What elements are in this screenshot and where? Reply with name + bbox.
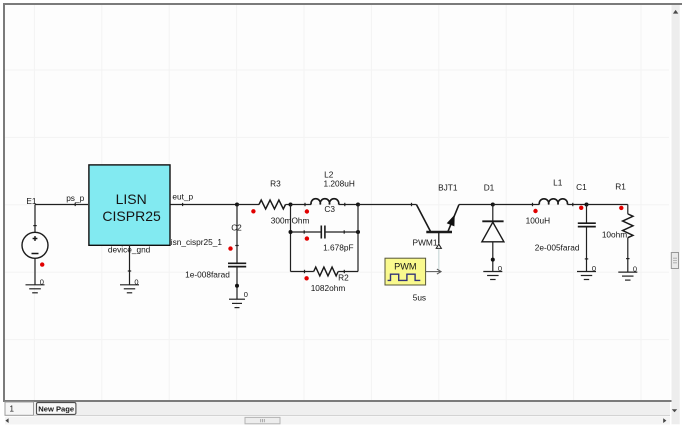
ground (R1) xyxy=(618,272,637,280)
svg-text:10ohm: 10ohm xyxy=(602,229,627,239)
pin tick before BJT1 xyxy=(411,203,413,206)
junction node A (C2 tap) xyxy=(235,203,239,207)
svg-text:1e-008farad: 1e-008farad xyxy=(185,270,230,280)
pin tick eut_p xyxy=(182,203,184,206)
wire: right branch vertical of RLC tank xyxy=(357,205,359,272)
wire: PWM output arrow xyxy=(426,269,442,274)
junction node B xyxy=(289,203,293,207)
node: red probe dot after eut_p xyxy=(251,209,255,213)
node: red probe dot at R2 branch xyxy=(304,276,308,280)
svg-text:R3: R3 xyxy=(270,179,281,189)
junction node C xyxy=(356,203,360,207)
wire: E1 top to rail xyxy=(34,205,36,233)
junction on C2 ground stem xyxy=(235,284,239,288)
wire: node B to L2 xyxy=(291,204,312,206)
wire: gate control link (light) xyxy=(438,249,440,272)
pin tick C3 right xyxy=(343,230,345,233)
svg-text:0: 0 xyxy=(40,277,44,286)
wire: LISN eut_p to node A xyxy=(170,204,237,206)
junction node D (D1 tap) xyxy=(491,203,495,207)
resistor R3 xyxy=(259,200,286,209)
svg-text:PWM: PWM xyxy=(394,262,416,272)
pin tick before L1 xyxy=(532,203,534,206)
resistor R2 xyxy=(314,267,338,276)
voltage source E1 xyxy=(22,232,48,258)
node: red probe dot at R1 xyxy=(619,206,623,210)
node: red probe dot at E1 xyxy=(40,262,44,266)
svg-text:C2: C2 xyxy=(231,223,242,233)
resistor R1 xyxy=(623,214,633,238)
wire: E1 bottom to ground xyxy=(34,258,36,285)
svg-text:0: 0 xyxy=(134,277,138,286)
svg-text:eut_p: eut_p xyxy=(172,191,193,201)
svg-text:lisn_cispr25_1: lisn_cispr25_1 xyxy=(169,237,222,247)
node: red probe dot at C1 xyxy=(579,206,583,210)
svg-text:2e-005farad: 2e-005farad xyxy=(535,243,580,253)
inductor L2 xyxy=(311,199,339,205)
wire: LISN device_gnd to ground xyxy=(129,245,131,285)
svg-text:1.678pF: 1.678pF xyxy=(323,243,353,253)
svg-text:0: 0 xyxy=(633,264,637,273)
pin tick C2 stem xyxy=(235,245,238,247)
svg-text:C1: C1 xyxy=(576,182,587,192)
capacitor C2 xyxy=(236,205,238,264)
pin tick before L2 xyxy=(304,203,306,206)
pin tick C3 left xyxy=(303,230,305,233)
vertical scrollbar xyxy=(671,5,679,424)
wire: R1 bottom lead xyxy=(627,238,629,272)
svg-text:0: 0 xyxy=(244,290,248,299)
pin tick after L2 xyxy=(344,203,346,206)
capacitor C3 xyxy=(321,226,325,239)
svg-text:1082ohm: 1082ohm xyxy=(311,283,346,293)
junction on D1 ground stem xyxy=(491,258,495,262)
junction node E (C1 tap) xyxy=(585,203,589,207)
wire: C3 branch right xyxy=(325,231,358,233)
horizontal scrollbar xyxy=(5,417,670,425)
svg-text:D1: D1 xyxy=(484,182,495,192)
svg-text:E1: E1 xyxy=(26,196,37,206)
node: red probe dot below node B xyxy=(305,209,309,213)
svg-text:5us: 5us xyxy=(413,292,426,302)
node: red probe dot at C2 xyxy=(228,246,232,250)
page tab bar xyxy=(5,402,670,416)
svg-text:BJT1: BJT1 xyxy=(438,182,458,192)
diode D1 xyxy=(482,205,504,272)
wire: node C to BJT1 collector xyxy=(358,204,416,206)
wire: R2 branch left xyxy=(291,271,314,273)
wire: L2 to node C xyxy=(339,204,358,206)
svg-text:0: 0 xyxy=(592,264,596,273)
ground (D1) xyxy=(483,272,502,280)
pin tick device_gnd xyxy=(128,270,131,272)
wire: node A to R3 xyxy=(237,204,259,206)
ground (LISN device_gnd) xyxy=(120,285,139,293)
wire: C2 to ground xyxy=(236,267,238,300)
wire: BJT1 emitter to node D xyxy=(459,204,493,206)
ground (C1) xyxy=(577,272,596,280)
wire: main rail E1 to LISN ps_p xyxy=(35,204,88,206)
transistor BJT1 xyxy=(416,205,459,249)
junction C3 branch right xyxy=(356,230,360,234)
svg-text:New Page: New Page xyxy=(38,404,74,413)
wire: R1 top lead xyxy=(627,205,629,214)
svg-text:PWM1: PWM1 xyxy=(413,238,438,248)
pin tick C1 stem xyxy=(585,258,588,260)
wire: node D to L1 xyxy=(493,204,540,206)
svg-text:R2: R2 xyxy=(338,273,349,283)
PWM source block PWM1 xyxy=(385,258,426,285)
svg-text:R1: R1 xyxy=(615,182,626,192)
capacitor C1 xyxy=(586,205,588,224)
node: red probe dot after L1 left xyxy=(533,209,537,213)
svg-text:0: 0 xyxy=(498,264,502,273)
inductor L1 xyxy=(539,199,567,205)
junction C3 branch left xyxy=(289,230,293,234)
wire: R3 to node B xyxy=(286,204,291,206)
pin tick E1 top xyxy=(33,225,36,227)
svg-text:CISPR25: CISPR25 xyxy=(102,208,161,224)
svg-text:LISN: LISN xyxy=(116,191,147,207)
ground (E1) xyxy=(26,285,45,293)
svg-text:1.208uH: 1.208uH xyxy=(324,179,355,189)
pin tick ps_p xyxy=(74,203,76,206)
LISN block U1 lisn_cispr25_1 xyxy=(89,165,170,245)
svg-text:L1: L1 xyxy=(553,178,563,188)
node: red probe dot at C3 branch xyxy=(305,236,309,240)
wire: left branch vertical of RLC tank xyxy=(290,205,292,272)
svg-text:100uH: 100uH xyxy=(526,216,550,226)
svg-text:ps_p: ps_p xyxy=(66,193,84,203)
ground (C2) xyxy=(229,299,245,307)
pin tick after L1 xyxy=(572,203,574,206)
wire: node E to R1 xyxy=(587,204,628,206)
svg-text:1: 1 xyxy=(10,405,15,414)
wire: C1 to ground xyxy=(586,227,588,272)
svg-text:C3: C3 xyxy=(324,204,335,214)
wire: R2 branch right xyxy=(338,271,358,273)
wire: L1 to node E xyxy=(567,204,586,206)
pin tick R2 right xyxy=(343,270,345,273)
wire: C3 branch left xyxy=(291,231,322,233)
pin tick R1 stem xyxy=(626,258,629,260)
pin tick R2 left xyxy=(304,270,306,273)
